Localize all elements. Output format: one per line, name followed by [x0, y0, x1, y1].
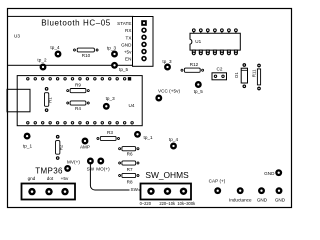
svg-text:tp_5: tp_5	[194, 89, 204, 94]
svg-text:10k–300k: 10k–300k	[177, 201, 196, 206]
svg-text:R8: R8	[127, 180, 133, 185]
svg-text:VCC (+5v): VCC (+5v)	[158, 89, 180, 94]
node MO(+)	[97, 158, 104, 165]
pin row top of U4	[27, 77, 132, 80]
svg-text:tp_2: tp_2	[37, 57, 47, 62]
svg-text:R10: R10	[82, 53, 91, 58]
border frame	[8, 9, 292, 208]
svg-text:RX: RX	[125, 28, 131, 33]
svg-text:GND: GND	[264, 171, 275, 176]
resistor R2	[56, 136, 64, 160]
pin row bottom of U4	[27, 122, 134, 124]
svg-text:tp_3: tp_3	[162, 59, 172, 64]
svg-text:MO(+): MO(+)	[96, 167, 110, 172]
node Inductance	[237, 187, 244, 194]
svg-text:R1: R1	[48, 97, 53, 103]
USB connector	[7, 89, 30, 112]
svg-text:tp_1: tp_1	[144, 135, 154, 140]
resistor R4	[67, 101, 90, 111]
svg-text:C2: C2	[217, 66, 223, 71]
bottom pins	[192, 50, 237, 55]
svg-text:R3: R3	[107, 130, 113, 135]
svg-text:R4: R4	[75, 106, 81, 111]
resistor R9	[67, 82, 90, 92]
svg-text:tp_4: tp_4	[50, 45, 60, 50]
module U3 Bluetooth HC-05 box	[8, 16, 134, 65]
svg-text:tp_3: tp_3	[106, 96, 116, 101]
svg-text:R6: R6	[127, 152, 133, 157]
resistor R6	[119, 147, 139, 157]
testpoint tp_5 (right)	[195, 81, 202, 88]
svg-text:tp_4: tp_4	[169, 137, 179, 142]
node SW	[87, 158, 94, 165]
connector J1 6-pin	[133, 17, 154, 67]
svg-text:220–10k: 220–10k	[159, 201, 176, 206]
resistor R11	[252, 64, 261, 90]
testpoint tp_1 (left)	[24, 133, 31, 140]
svg-text:dot: dot	[47, 176, 54, 181]
svg-text:tp_5: tp_5	[119, 67, 129, 72]
svg-text:U1: U1	[195, 39, 201, 44]
body	[190, 33, 240, 50]
connector TMP36	[22, 184, 76, 200]
svg-text:R12: R12	[190, 62, 199, 67]
svg-text:0–220: 0–220	[140, 201, 152, 206]
svg-text:CAP (+): CAP (+)	[209, 179, 226, 184]
resistor R10	[74, 48, 99, 58]
top pins	[192, 29, 237, 34]
svg-text:EN: EN	[125, 57, 131, 62]
svg-text:gnd: gnd	[28, 176, 36, 181]
svg-text:+5v: +5v	[124, 50, 132, 55]
svg-text:R9: R9	[75, 82, 81, 87]
svg-text:MV(+): MV(+)	[67, 160, 80, 165]
svg-text:STATE: STATE	[117, 21, 131, 26]
resistor R3	[97, 130, 120, 141]
svg-text:U4: U4	[129, 103, 135, 108]
svg-text:GND: GND	[257, 198, 268, 203]
pin pads	[142, 28, 146, 32]
resistor R12	[181, 62, 204, 72]
wire SW to SW_OHMS	[90, 164, 139, 190]
diode D1	[234, 64, 248, 88]
testpoint AMP	[82, 138, 89, 145]
svg-text:tp_3: tp_3	[107, 46, 117, 51]
resistor R1	[44, 88, 52, 112]
svg-text:AMP: AMP	[80, 145, 90, 150]
svg-text:U3: U3	[14, 33, 20, 38]
testpoint tp_1 (middle)	[134, 131, 141, 138]
svg-text:R7: R7	[127, 167, 133, 172]
svg-text:GND: GND	[121, 42, 132, 47]
connector SW_OHMS	[141, 184, 192, 200]
module U4 box	[17, 76, 142, 126]
svg-text:Bluetooth HC–05: Bluetooth HC–05	[41, 19, 111, 28]
resistor R7	[119, 161, 139, 172]
pin 1 STATE square pad	[141, 20, 147, 26]
svg-text:Inductance: Inductance	[229, 198, 252, 203]
svg-text:R2: R2	[59, 144, 64, 150]
node GND (bottom middle)	[258, 187, 265, 194]
svg-text:tp_1: tp_1	[23, 144, 33, 149]
svg-text:R11: R11	[252, 69, 257, 77]
testpoint tp_5	[111, 62, 118, 69]
svg-text:SW: SW	[131, 187, 139, 192]
svg-text:+5v: +5v	[61, 176, 69, 181]
resistor R8	[119, 173, 139, 184]
svg-text:SW_OHMS: SW_OHMS	[145, 170, 189, 180]
op-amp U1 DIP-14	[190, 29, 240, 55]
svg-text:TMP36: TMP36	[35, 166, 63, 175]
capacitor C2	[212, 66, 227, 80]
node GND (bottom right)	[276, 187, 283, 194]
svg-text:TX: TX	[126, 35, 132, 40]
svg-text:D1: D1	[234, 72, 239, 78]
svg-text:GND: GND	[275, 198, 286, 203]
